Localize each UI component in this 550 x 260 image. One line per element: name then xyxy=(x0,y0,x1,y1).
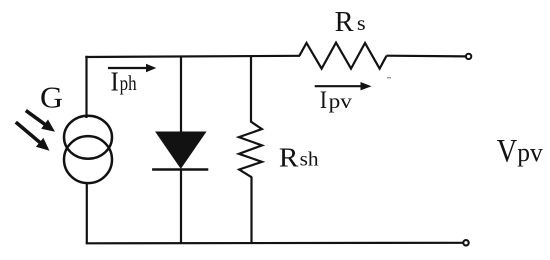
wire bottom horizontal xyxy=(86,242,463,245)
label Rs xyxy=(335,7,366,38)
svg-text:sh: sh xyxy=(300,149,319,171)
label Vpv xyxy=(497,132,544,169)
svg-text:pv: pv xyxy=(329,91,353,113)
current arrow Ipv xyxy=(315,82,372,90)
svg-text:pv: pv xyxy=(517,137,543,167)
svg-text:G: G xyxy=(40,81,63,115)
svg-text:s: s xyxy=(357,11,366,35)
resistor Rs xyxy=(299,43,386,69)
resistor Rsh xyxy=(239,122,262,178)
wire diode branch bottom xyxy=(180,170,182,244)
svg-text:ph: ph xyxy=(120,71,137,95)
diode D1 xyxy=(152,132,208,170)
wire top-left horizontal xyxy=(85,56,300,57)
svg-text:I: I xyxy=(320,87,327,114)
terminal bottom-right output xyxy=(463,240,468,245)
svg-text:V: V xyxy=(497,132,518,169)
label Rsh xyxy=(279,142,319,173)
stray mark xyxy=(387,77,391,78)
current arrow Iph xyxy=(108,64,156,72)
terminal top-right output xyxy=(466,54,471,59)
svg-text:R: R xyxy=(335,7,354,38)
svg-text:R: R xyxy=(279,142,299,173)
label Iph xyxy=(111,66,137,96)
wire left vertical upper xyxy=(85,56,87,118)
wire Rsh branch bottom xyxy=(250,177,252,244)
wire Rsh branch top xyxy=(250,56,252,123)
wire diode branch top xyxy=(180,56,182,133)
irradiance arrow 1 xyxy=(26,111,55,132)
wire left vertical lower xyxy=(86,183,88,244)
current source Iph (two circles) xyxy=(64,116,112,183)
wire top-right horizontal xyxy=(387,55,466,58)
label Ipv xyxy=(320,87,353,114)
svg-text:I: I xyxy=(111,66,119,96)
irradiance arrow 2 xyxy=(16,122,50,151)
